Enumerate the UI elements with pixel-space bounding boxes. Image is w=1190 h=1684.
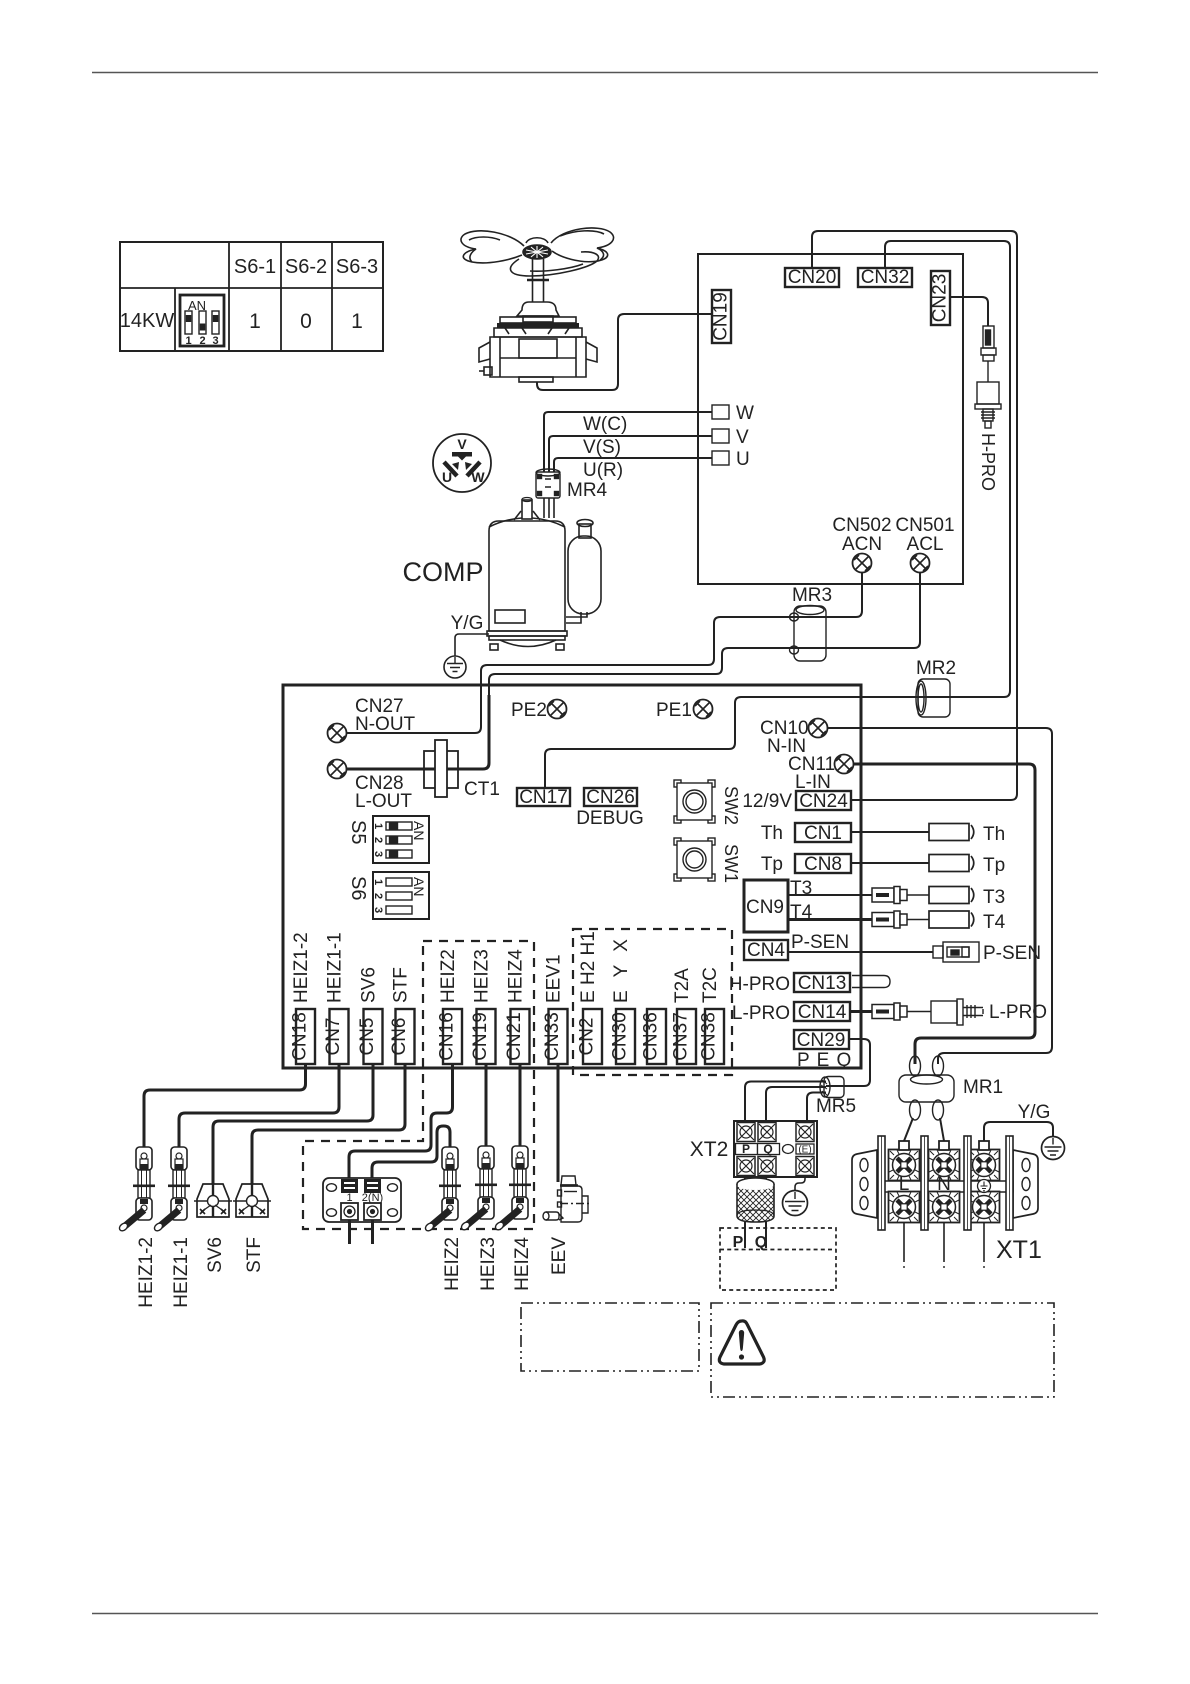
EEV motor (543, 1176, 590, 1222)
pad W (712, 405, 729, 419)
svg-text:P: P (733, 1234, 744, 1251)
svg-text:P E Q: P E Q (797, 1050, 852, 1071)
wire W(C) (544, 412, 712, 472)
wire CN9 T4 (bold) (788, 918, 872, 921)
svg-text:AN: AN (411, 821, 427, 840)
inline connector T3 + sensor T3 (872, 887, 907, 904)
svg-text:N-OUT: N-OUT (355, 714, 416, 735)
connector CN2 (583, 1009, 602, 1064)
connector CN29 (794, 1030, 849, 1049)
svg-text:L: L (899, 1174, 910, 1195)
svg-text:STF: STF (244, 1237, 265, 1273)
wire HEIZ2 fuse to terminal 2(N) (372, 1126, 450, 1179)
wires below XT1 (903, 1222, 905, 1262)
connector CN33 (549, 1009, 568, 1064)
svg-text:CN13: CN13 (798, 973, 847, 994)
fuse holder HEIZ1-1 (153, 1147, 190, 1232)
fuse holder HEIZ1-2 (118, 1147, 155, 1232)
center bar (878, 1181, 1013, 1192)
terminal block 1 2(N) (323, 1178, 401, 1222)
wire CN6 to STF (252, 1064, 405, 1184)
toroid MR1 with loops (910, 1056, 944, 1120)
main control board outline (283, 685, 861, 1068)
svg-text:CN23: CN23 (930, 274, 951, 323)
svg-text:CN37: CN37 (671, 1012, 692, 1061)
wire CN21 to HEIZ4 (519, 1064, 522, 1146)
ground symbol XT2 (783, 1191, 808, 1216)
svg-text:STF: STF (391, 967, 412, 1003)
svg-text:HEIZ1-1: HEIZ1-1 (325, 932, 346, 1003)
svg-text:P-SEN: P-SEN (791, 932, 849, 953)
svg-text:SV6: SV6 (205, 1237, 226, 1273)
solenoid SV6 (194, 1184, 232, 1217)
svg-text:CN38: CN38 (699, 1012, 720, 1061)
wires MR1 loops to XT1 studs (904, 1118, 913, 1141)
svg-text:3: 3 (372, 907, 384, 913)
open stub wire from CN13 (852, 976, 890, 988)
connector CN4 + P-SEN label (744, 940, 788, 960)
svg-text:HEIZ4: HEIZ4 (506, 949, 527, 1003)
wire CN33 to EEV (557, 1064, 560, 1182)
svg-text:L-PRO: L-PRO (989, 1002, 1047, 1023)
relay ring MR5 (820, 1077, 844, 1098)
svg-text:Th: Th (983, 824, 1005, 845)
connector CN37 (677, 1009, 696, 1064)
svg-text:L-OUT: L-OUT (355, 791, 412, 812)
wire CN11 L-IN to MR1 left loop (bold) (854, 764, 1036, 1064)
dashed box around CN2..CN38 (573, 929, 732, 1075)
wire CN8 to Tp sensor (851, 862, 929, 864)
pad U (712, 451, 729, 465)
fan motor (479, 259, 597, 382)
svg-text:HEIZ1-1: HEIZ1-1 (171, 1237, 192, 1308)
svg-text:S5: S5 (347, 820, 369, 844)
accumulator tank (566, 520, 601, 624)
wire Y/G to ground (455, 634, 489, 656)
connector CN20 (785, 268, 839, 287)
svg-text:SW2: SW2 (721, 786, 741, 825)
svg-text:CN502: CN502 (832, 515, 891, 536)
connector CN32 (858, 268, 912, 287)
svg-text:CN2: CN2 (577, 1017, 598, 1055)
svg-text:W(C): W(C) (583, 414, 627, 435)
svg-text:Q: Q (755, 1234, 767, 1251)
svg-text:CN8: CN8 (804, 854, 842, 875)
svg-text:CN16: CN16 (437, 1012, 458, 1061)
push button SW2 (674, 780, 715, 823)
push button SW1 (674, 838, 715, 881)
svg-text:CN19: CN19 (470, 1012, 491, 1061)
svg-text:1: 1 (372, 823, 384, 829)
svg-text:AN: AN (411, 877, 427, 896)
svg-text:SV6: SV6 (359, 967, 380, 1003)
svg-text:PE1: PE1 (656, 700, 692, 721)
svg-text:PE2: PE2 (511, 700, 547, 721)
connector CN21 (511, 1009, 530, 1064)
svg-text:S6-3: S6-3 (336, 256, 378, 278)
wire CN7 to HEIZ1-1 (179, 1064, 339, 1147)
svg-text:12/9V: 12/9V (742, 791, 792, 812)
fuse holder HEIZ4 (494, 1146, 531, 1231)
screws top row (889, 1150, 920, 1181)
svg-text:CN36: CN36 (641, 1012, 662, 1061)
svg-text:Tp: Tp (983, 855, 1005, 876)
studs (899, 1141, 909, 1150)
svg-text:U: U (442, 469, 452, 485)
svg-text:S6: S6 (347, 876, 369, 900)
svg-text:W: W (471, 469, 485, 485)
svg-text:T2C: T2C (700, 967, 721, 1003)
svg-text:3: 3 (372, 851, 384, 857)
relay ring MR3 (790, 606, 827, 662)
svg-text:CT1: CT1 (464, 779, 500, 800)
wires below terminal block (348, 1220, 351, 1244)
connector CN38 (705, 1009, 724, 1064)
svg-text:HEIZ3: HEIZ3 (478, 1237, 499, 1291)
terminal ACL (CN501) (911, 554, 930, 573)
svg-text:1: 1 (185, 335, 191, 347)
wire CN9 T3 (788, 894, 872, 896)
wires MR5 to XT2 (P Q E) (745, 1082, 826, 1123)
wire CN29 to MR5 (826, 1039, 870, 1086)
terminal CN27 (328, 724, 347, 743)
svg-text:DEBUG: DEBUG (576, 808, 644, 829)
svg-text:T3: T3 (983, 887, 1005, 908)
svg-text:CN501: CN501 (895, 515, 954, 536)
svg-text:CN5: CN5 (357, 1017, 378, 1055)
svg-text:HEIZ4: HEIZ4 (512, 1237, 533, 1291)
svg-text:2: 2 (199, 335, 205, 347)
svg-text:3: 3 (212, 335, 218, 347)
dip switch S6 (372, 872, 429, 919)
svg-text:1: 1 (249, 310, 261, 333)
svg-text:CN32: CN32 (861, 267, 910, 288)
connector CN23 (931, 271, 950, 325)
svg-text:CN33: CN33 (542, 1012, 563, 1061)
connector CN16 (443, 1009, 462, 1064)
svg-text:CN9: CN9 (746, 897, 784, 918)
svg-text:MR1: MR1 (963, 1077, 1003, 1098)
wire XT1 earth to Y/G ground (984, 1122, 1053, 1141)
svg-text:CN1: CN1 (804, 823, 842, 844)
svg-text:0: 0 (300, 310, 312, 333)
fan propeller (461, 228, 614, 276)
terminal CN28 (328, 760, 347, 779)
svg-text:14KW: 14KW (120, 310, 175, 332)
svg-text:Tp: Tp (761, 854, 783, 875)
wire U(R) (554, 458, 712, 472)
current transformer CT1 (424, 751, 458, 788)
svg-text:1: 1 (372, 879, 384, 885)
connector CN18 (296, 1009, 315, 1064)
svg-text:MR4: MR4 (567, 480, 608, 501)
wire ACL to MR3 to CN28 (489, 572, 920, 700)
plug symbol UVW (433, 434, 491, 492)
connector CN9 (744, 880, 788, 932)
wires MR4 to compressor (544, 498, 554, 518)
svg-text:Y/G: Y/G (451, 613, 484, 634)
svg-text:CN18: CN18 (290, 1012, 311, 1061)
screws bottom row (889, 1192, 920, 1223)
svg-text:MR2: MR2 (916, 658, 956, 679)
right wing (1013, 1150, 1038, 1218)
solenoid STF (233, 1184, 271, 1217)
svg-text:HEIZ1-2: HEIZ1-2 (136, 1237, 157, 1308)
wire fan motor to CN19 (537, 314, 712, 390)
wires XT2 down (744, 1175, 746, 1181)
svg-text:CN20: CN20 (788, 267, 837, 288)
svg-text:XT2: XT2 (690, 1138, 729, 1161)
svg-text:T2A: T2A (672, 968, 693, 1003)
wire CN19 to HEIZ3 (485, 1064, 488, 1146)
svg-text:ACN: ACN (842, 534, 882, 555)
svg-text:P-SEN: P-SEN (983, 943, 1041, 964)
wire CN1 to Th sensor (851, 831, 929, 833)
ground symbol XT1 (1042, 1137, 1065, 1160)
svg-text:HEIZ2: HEIZ2 (438, 949, 459, 1003)
svg-text:EEV: EEV (549, 1237, 570, 1275)
svg-text:MR3: MR3 (792, 585, 832, 606)
sensor Th (929, 824, 974, 841)
left wing (852, 1150, 877, 1218)
inline connector T4 + sensor T4 (872, 911, 907, 928)
svg-text:CN6: CN6 (389, 1017, 410, 1055)
inverter board outline (698, 254, 963, 584)
svg-text:2: 2 (372, 837, 384, 843)
svg-text:W: W (736, 403, 754, 424)
wire CN4 to P-SEN connector (788, 951, 933, 953)
warning triangle (719, 1321, 764, 1364)
svg-text:(E): (E) (798, 1145, 811, 1156)
inline connector L-PRO + sensor body (872, 1003, 907, 1020)
connector CN19 (712, 290, 731, 343)
dip switch in table (180, 295, 224, 347)
svg-text:HEIZ1-2: HEIZ1-2 (291, 932, 312, 1003)
svg-text:CN24: CN24 (799, 791, 848, 812)
svg-text:S6-2: S6-2 (285, 256, 327, 278)
svg-text:COMP: COMP (403, 557, 484, 587)
svg-text:V(S): V(S) (583, 437, 621, 458)
svg-text:N: N (937, 1174, 951, 1195)
wire CN32 to MR2 to CN17 (545, 241, 1010, 788)
top rule (92, 72, 1098, 74)
svg-text:U(R): U(R) (583, 460, 623, 481)
wire CN5 to SV6 (213, 1064, 373, 1184)
separator walls (878, 1136, 1013, 1230)
wire CN23 to H-PRO (950, 297, 988, 326)
svg-text:XT1: XT1 (996, 1236, 1042, 1264)
svg-text:CN29: CN29 (797, 1030, 846, 1051)
connector CN5 (364, 1009, 383, 1064)
svg-text:E H2 H1: E H2 H1 (578, 931, 599, 1003)
P-SEN connector (933, 942, 979, 962)
relay ring MR4 (536, 469, 560, 498)
svg-text:V: V (457, 436, 467, 452)
dashed box around CN16/CN19/CN21 merging into lower dashed box (303, 941, 534, 1229)
ground symbol compressor (444, 656, 466, 678)
svg-text:U: U (736, 449, 750, 470)
fuse holder HEIZ2 (424, 1147, 461, 1232)
sensor Tp (929, 855, 974, 872)
connector CN7 (330, 1009, 349, 1064)
terminal ACN (CN502) (853, 554, 872, 573)
fuse holder HEIZ3 (460, 1146, 497, 1231)
H-PRO sensor chain (975, 326, 1001, 428)
svg-text:2: 2 (372, 893, 384, 899)
bottom rule (92, 1613, 1098, 1615)
svg-text:E Y X: E Y X (611, 935, 632, 1003)
svg-text:CN21: CN21 (504, 1012, 525, 1061)
wire V(S) (549, 436, 712, 472)
connector CN17 (517, 788, 570, 806)
svg-text:MR5: MR5 (816, 1096, 856, 1117)
svg-text:T4: T4 (983, 912, 1006, 933)
relay ring MR2 (916, 679, 950, 717)
svg-text:H-PRO: H-PRO (978, 433, 998, 491)
svg-text:S6-1: S6-1 (234, 256, 276, 278)
svg-text:1: 1 (351, 310, 363, 333)
dash-dot box left (empty) (521, 1303, 699, 1371)
wire L-OUT bold segment (346, 695, 489, 769)
svg-text:L-PRO: L-PRO (732, 1003, 790, 1024)
svg-text:CN30: CN30 (610, 1012, 631, 1061)
wire CN18 to HEIZ1-2 (144, 1064, 306, 1147)
svg-text:ACL: ACL (907, 534, 944, 555)
wire CN10 N-IN to MR1 right loop (828, 728, 1053, 1064)
svg-text:EEV1: EEV1 (544, 954, 565, 1003)
table 14KW S6 settings (120, 242, 383, 351)
svg-text:Th: Th (761, 823, 783, 844)
connector CN30 (616, 1009, 635, 1064)
svg-text:CN26: CN26 (586, 787, 635, 808)
pad V (712, 429, 729, 443)
dip switch S5 (372, 816, 429, 863)
svg-text:CN14: CN14 (798, 1002, 847, 1023)
svg-text:P: P (742, 1142, 750, 1156)
svg-text:HEIZ2: HEIZ2 (442, 1237, 463, 1291)
dashed box P Q (720, 1228, 836, 1290)
svg-text:SW1: SW1 (721, 844, 741, 883)
connector CN26 DEBUG (584, 788, 637, 806)
wire CN14 bold (850, 1010, 872, 1013)
dash-dot box right (warning) (711, 1303, 1054, 1397)
wire CN20 to CN24 (812, 231, 1017, 800)
svg-text:CN4: CN4 (747, 940, 785, 961)
wire ACN to MR3 to CN27 (346, 572, 862, 733)
connector CN19b (477, 1009, 496, 1064)
connector CN6 (396, 1009, 415, 1064)
svg-text:CN17: CN17 (519, 787, 568, 808)
svg-text:HEIZ3: HEIZ3 (472, 949, 493, 1003)
compressor COMP (487, 498, 567, 651)
svg-text:H-PRO: H-PRO (729, 974, 790, 995)
wire CN16 to terminal 1 (349, 1064, 453, 1179)
svg-text:Q: Q (763, 1142, 772, 1156)
connector CN36 (647, 1009, 666, 1064)
wire XT2 E to ground (795, 1175, 805, 1191)
svg-text:CN19: CN19 (711, 292, 732, 341)
svg-text:Y/G: Y/G (1018, 1102, 1051, 1123)
svg-text:CN7: CN7 (323, 1017, 344, 1055)
svg-text:V: V (736, 427, 749, 448)
